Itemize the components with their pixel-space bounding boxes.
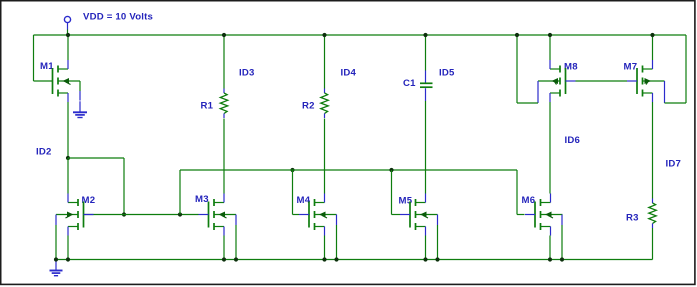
wire M1 source down to node ID2 bbox=[67, 102, 69, 158]
transistor M4 bbox=[297, 194, 337, 236]
wire M6 gate drop bbox=[517, 170, 525, 215]
svg-text:R2: R2 bbox=[302, 101, 315, 112]
wire VDD to top rail bbox=[67, 30, 69, 36]
junction dots bottom rail bbox=[54, 257, 564, 261]
wire rail to R1 bbox=[223, 35, 225, 89]
wire ID2 to M2 drain bbox=[67, 158, 69, 194]
wire M2 bulk to bottom rail bbox=[55, 215, 57, 260]
wire R2 to M4 drain bbox=[324, 119, 326, 194]
svg-text:R1: R1 bbox=[201, 101, 214, 112]
transistor M6 bbox=[522, 194, 563, 236]
resistor R3 bbox=[626, 199, 656, 229]
wire ID2 hook right bbox=[68, 158, 124, 215]
transistor M2 bbox=[56, 194, 95, 236]
wire gate feed drop left bbox=[179, 170, 181, 215]
wire M8 gate to M7 gate bbox=[576, 80, 628, 82]
wire bottom ground rail bbox=[56, 259, 653, 261]
wire gate feed line bbox=[180, 169, 517, 171]
svg-text:ID2: ID2 bbox=[36, 147, 52, 158]
wire M6 source to bottom rail bbox=[549, 236, 551, 260]
node M4 gate tap bbox=[290, 168, 294, 172]
wire rail to C1 bbox=[425, 35, 427, 71]
wire left drop to M1 gate bbox=[34, 35, 53, 81]
wire M7 source to R3 bbox=[652, 102, 654, 199]
wire M3 source to bottom rail bbox=[223, 236, 225, 260]
svg-text:M3: M3 bbox=[195, 194, 209, 205]
wire M4 gate drop bbox=[293, 170, 300, 215]
transistor M1 bbox=[40, 60, 80, 102]
node ID2 bbox=[66, 156, 70, 160]
wire M6 bulk to bottom rail bbox=[561, 215, 563, 260]
svg-text:M6: M6 bbox=[522, 195, 536, 206]
transistor M5 bbox=[399, 194, 438, 236]
resistor R1 bbox=[201, 89, 228, 119]
transistor M8 bbox=[538, 60, 578, 102]
svg-text:M7: M7 bbox=[624, 62, 638, 73]
wire M7 bulk hook to rail bbox=[665, 35, 687, 103]
wire M3 bulk to bottom rail bbox=[235, 215, 237, 260]
wire M8 source to M6 drain bbox=[549, 102, 551, 194]
wire M5 source to bottom rail bbox=[425, 236, 427, 260]
resistor R2 bbox=[302, 89, 328, 119]
svg-text:ID3: ID3 bbox=[239, 68, 255, 79]
wire M8 drain to rail bbox=[549, 35, 551, 60]
svg-text:ID4: ID4 bbox=[341, 68, 357, 79]
wire M2 source to bottom rail bbox=[67, 236, 69, 260]
svg-text:R3: R3 bbox=[626, 213, 639, 224]
wire M4 bulk to bottom rail bbox=[336, 215, 338, 260]
svg-text:C1: C1 bbox=[403, 78, 416, 89]
svg-text:VDD = 10 Volts: VDD = 10 Volts bbox=[83, 12, 153, 23]
wire top VDD rail bbox=[34, 34, 687, 36]
node M5 gate tap bbox=[389, 168, 393, 172]
VDD terminal port bbox=[64, 16, 70, 29]
wire M5 bulk to bottom rail bbox=[437, 215, 439, 260]
ground symbol at M1 bulk bbox=[73, 101, 87, 117]
wire M1 bulk to ground bbox=[79, 81, 81, 101]
junction dots top rail bbox=[66, 33, 655, 37]
svg-text:ID6: ID6 bbox=[565, 135, 581, 146]
wire M5 gate drop bbox=[392, 170, 401, 215]
ground symbol main bbox=[50, 260, 63, 276]
svg-text:ID7: ID7 bbox=[666, 159, 682, 170]
junction ID2 hook to gate line bbox=[122, 212, 126, 216]
junction gate line at drop bbox=[178, 212, 182, 216]
capacitor C1 bbox=[403, 71, 433, 102]
wire M1 drain to rail bbox=[67, 35, 69, 60]
wire R3 to bottom rail bbox=[652, 228, 654, 260]
wire M7 drain to rail bbox=[652, 35, 654, 60]
wire common gate line M2 to M3 bbox=[84, 214, 199, 216]
wire M4 source to bottom rail bbox=[324, 236, 326, 260]
wire M8 bulk hook to rail bbox=[517, 35, 538, 103]
wire rail to R2 bbox=[324, 35, 326, 89]
transistor M3 bbox=[195, 194, 236, 236]
transistor M7 bbox=[624, 60, 665, 102]
wire C1 to M5 drain bbox=[425, 101, 427, 194]
svg-text:ID5: ID5 bbox=[439, 68, 455, 79]
wire R1 to M3 drain bbox=[223, 119, 225, 194]
